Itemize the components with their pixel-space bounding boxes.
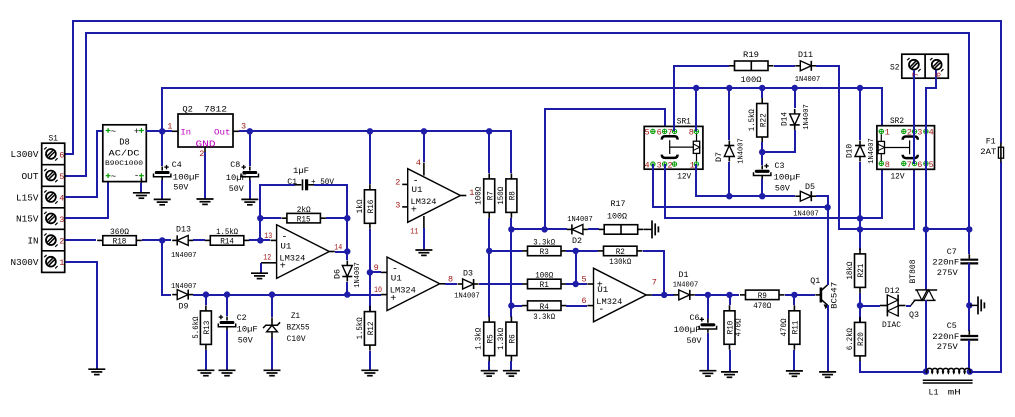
junction R4 line at R8: [508, 302, 514, 308]
zener Z1 BZX55 C10V: [271, 295, 273, 317]
resistor R4 3.3k: [511, 305, 522, 307]
wire jumper to OUT line: [926, 228, 969, 230]
svg-text:13: 13: [264, 231, 272, 241]
junction R15 right: [344, 215, 350, 221]
svg-text:1: 1: [885, 128, 890, 138]
junction R16 top on +12V: [367, 128, 373, 134]
svg-text:12: 12: [263, 253, 271, 263]
diode D10 1N4007: [859, 88, 861, 140]
wire SR1 pin1 to D5 line: [696, 164, 795, 196]
svg-text:6: 6: [59, 150, 64, 160]
svg-text:mH: mH: [948, 388, 961, 398]
svg-text:R20: R20: [856, 332, 866, 346]
svg-text:50V: 50V: [687, 336, 703, 346]
svg-text:7812: 7812: [204, 105, 227, 115]
svg-text:~: ~: [111, 172, 116, 182]
junction Q2 output node: [247, 128, 253, 134]
wire pin13 node up to R15/C1: [260, 185, 295, 240]
svg-text:-: -: [134, 171, 139, 181]
svg-text:1kΩ: 1kΩ: [356, 199, 365, 213]
svg-text:D11: D11: [798, 50, 813, 60]
svg-text:C6: C6: [690, 313, 700, 323]
svg-text:D1: D1: [679, 270, 689, 280]
junction pin13 node: [257, 237, 263, 243]
junction pin 9: [367, 269, 373, 275]
svg-text:2: 2: [907, 128, 912, 138]
diode D9 1N4007: [177, 290, 188, 300]
junction R11 top: [791, 292, 797, 298]
svg-text:4: 4: [929, 128, 934, 138]
svg-text:5: 5: [644, 128, 649, 138]
svg-text:3: 3: [59, 215, 64, 225]
svg-text:1.3kΩ: 1.3kΩ: [497, 328, 506, 350]
junction pin3 line at R21 column: [857, 215, 863, 221]
SR1 pin 3: [662, 162, 666, 166]
svg-text:LM324: LM324: [390, 286, 416, 296]
junction Q2 input node: [159, 128, 165, 134]
wire SR2 pin4 to pin5 through relay: [925, 131, 927, 164]
wire SR1 pin7 up to R19: [674, 66, 729, 131]
wire node B down through D6: [346, 218, 348, 260]
svg-text:470Ω: 470Ω: [735, 318, 744, 336]
SR2 pin 4: [924, 129, 928, 133]
svg-text:5: 5: [59, 172, 64, 182]
svg-text:U1: U1: [391, 274, 402, 284]
svg-text:BC547: BC547: [829, 282, 839, 309]
wire C4 branch: [161, 131, 163, 166]
svg-text:R12: R12: [366, 322, 376, 336]
capacitor C3 100uF 50V: [761, 152, 763, 165]
ground at R12: [361, 369, 378, 371]
resistor R15 2k: [287, 213, 321, 223]
diac D12: [880, 305, 887, 307]
wire pin 11 to ground: [423, 216, 425, 229]
ground at C8: [241, 198, 258, 200]
wire D8 plus to Q2 input node: [146, 130, 172, 132]
svg-text:1N4007: 1N4007: [354, 262, 362, 288]
wire triac to L1 left: [925, 300, 927, 372]
diode D6 1N4007: [342, 266, 352, 277]
wire D13 node down to D9: [162, 240, 171, 295]
svg-text:Q1: Q1: [810, 276, 820, 286]
svg-text:360Ω: 360Ω: [110, 228, 129, 237]
svg-text:7: 7: [911, 72, 921, 77]
svg-text:R13: R13: [202, 321, 212, 335]
pin marker D8 AC2: [106, 175, 111, 177]
svg-text:1: 1: [59, 258, 64, 268]
capacitor C8 10uF 50V: [244, 171, 256, 174]
SR2 pin 1: [879, 129, 883, 133]
svg-text:R14: R14: [220, 237, 234, 247]
svg-text:470Ω: 470Ω: [780, 318, 789, 336]
junction L1 right: [967, 368, 973, 374]
wire D5 to collector node: [816, 196, 828, 207]
wire SR2 pin5 down to triac: [925, 164, 927, 290]
junction pin5 node: [573, 281, 579, 287]
svg-text:R21: R21: [856, 264, 866, 278]
svg-text:6.2kΩ: 6.2kΩ: [846, 328, 855, 350]
wire S2 pin7 to SR2 pin3: [913, 70, 915, 131]
svg-text:3: 3: [917, 128, 922, 138]
SR1 pin 4: [651, 162, 655, 166]
capacitor C2 10uF 50V: [226, 295, 228, 316]
svg-text:D8: D8: [119, 138, 130, 148]
svg-text:10µF: 10µF: [226, 173, 247, 183]
svg-text:LM324: LM324: [411, 197, 437, 207]
wire S1-3 N15V to D8 AC input bottom: [65, 182, 108, 218]
SR1 contact bottom: [662, 155, 678, 158]
junction D7 top on rail: [726, 85, 732, 91]
resistor R22 1.5k: [761, 88, 763, 98]
junction D12 node: [857, 302, 863, 308]
voltage regulator Q2 7812: [178, 114, 233, 147]
wire SR2 pin3 to pin6 through relay: [913, 131, 915, 164]
svg-text:B90C1000: B90C1000: [105, 160, 143, 167]
svg-text:D9: D9: [179, 301, 189, 311]
earth at R17: [644, 228, 653, 230]
svg-text:1N4007: 1N4007: [171, 283, 197, 291]
SR1 pin 7: [672, 129, 676, 133]
SR1 coil: [693, 141, 699, 153]
svg-text:R1: R1: [540, 280, 549, 290]
svg-text:R15: R15: [297, 214, 311, 224]
terminal S1 screw pin 5: [46, 171, 56, 181]
terminal S1 screw pin 1: [46, 257, 56, 267]
svg-text:N300V: N300V: [11, 258, 40, 268]
SR2 pin 8: [879, 161, 883, 165]
resistor R16 1k: [369, 131, 371, 184]
svg-text:DIAC: DIAC: [882, 320, 901, 330]
svg-text:100Ω: 100Ω: [475, 187, 484, 205]
op-amp U1 LM324 pins 2 3 1: [408, 169, 461, 223]
svg-text:D5: D5: [805, 182, 815, 192]
svg-text:R5: R5: [485, 334, 495, 343]
resistor R5 1.3k: [484, 322, 495, 356]
junction R22 top on rail: [759, 85, 765, 91]
junction D10 top on rail: [857, 85, 863, 91]
wire R2 right to pin7 node: [643, 251, 664, 295]
wire D8 minus to ground: [140, 178, 142, 183]
ground at R13: [197, 369, 214, 371]
svg-text:100µF: 100µF: [674, 325, 701, 335]
svg-text:150Ω: 150Ω: [497, 187, 506, 205]
terminal S1 screw pin 3: [46, 214, 56, 224]
svg-text:IN: IN: [28, 236, 39, 246]
capacitor C6 100uF 50V: [707, 295, 709, 319]
wire D12 node to diac: [860, 305, 880, 307]
ground at C6: [699, 370, 716, 372]
ground at Z1: [264, 369, 281, 371]
capacitor C4 100uF 50V: [156, 171, 168, 174]
junction C6 top: [705, 292, 711, 298]
wire +12V from Q2 out to R8: [239, 131, 511, 173]
wire pin 8 output to D3: [440, 283, 446, 285]
capacitor C1 1uF 50V: [295, 184, 302, 186]
wire D3 to R1: [479, 283, 522, 285]
wire R16 bottom to pin9 and R12: [369, 229, 371, 311]
svg-text:5: 5: [929, 160, 934, 170]
svg-text:100µF: 100µF: [774, 173, 801, 183]
svg-text:7: 7: [652, 278, 657, 288]
ground at R5: [481, 370, 498, 372]
wire D14 bottom to R22 node: [762, 130, 795, 152]
svg-text:18kΩ: 18kΩ: [846, 261, 855, 279]
svg-text:11: 11: [410, 226, 418, 236]
diode D3 1N4007: [463, 279, 474, 289]
SR1 pin 5: [651, 129, 655, 133]
svg-text:6: 6: [581, 296, 586, 306]
terminal S2 screw pin 7: [909, 60, 919, 70]
svg-text:12V: 12V: [677, 172, 691, 181]
svg-text:1N4007: 1N4007: [868, 138, 876, 164]
wire R8 node to D2: [511, 228, 567, 230]
svg-text:D3: D3: [463, 268, 473, 278]
diode D7 1N4007: [728, 88, 730, 140]
resistor R6 1.3k: [506, 322, 517, 356]
ground at C4: [154, 198, 171, 200]
junction earth node: [966, 302, 972, 308]
SR2 pin 7: [902, 161, 906, 165]
svg-text:R19: R19: [743, 50, 759, 60]
wire pin 12 to ground: [261, 262, 277, 264]
SR2 pin 6: [912, 161, 916, 165]
svg-text:R18: R18: [113, 237, 127, 247]
svg-text:6: 6: [657, 128, 662, 138]
junction D7 bottom: [726, 193, 732, 199]
svg-text:1N4007: 1N4007: [803, 104, 811, 130]
SR2 pin 2: [902, 129, 906, 133]
svg-text:100Ω: 100Ω: [607, 212, 627, 222]
wire D2 to R17: [588, 228, 599, 230]
svg-text:R4: R4: [540, 302, 549, 312]
svg-text:LM324: LM324: [596, 297, 622, 307]
svg-text:10µF: 10µF: [237, 325, 258, 335]
wire C8 branch: [249, 131, 251, 166]
connector S1: [42, 143, 65, 272]
ground at Q2 GND: [197, 198, 214, 200]
svg-text:D7: D7: [715, 152, 724, 162]
svg-text:In: In: [181, 128, 192, 138]
svg-text:C1: C1: [287, 177, 297, 187]
SR1 pin 6: [662, 129, 666, 133]
svg-text:470Ω: 470Ω: [753, 302, 771, 311]
resistor R1 100: [528, 279, 562, 289]
wire D1 to R9: [695, 294, 739, 296]
svg-text:C8: C8: [230, 160, 240, 170]
svg-text:R7: R7: [485, 191, 495, 200]
wire R8 bottom down to R6: [510, 218, 512, 317]
svg-text:L15V: L15V: [16, 193, 39, 203]
bridge rectifier D8: [103, 125, 147, 182]
wire S1-4 L15V to D8 AC input top: [65, 131, 104, 197]
svg-text:1N4007: 1N4007: [171, 252, 197, 260]
resistor R21 18k: [855, 254, 866, 288]
svg-text:C5: C5: [947, 321, 957, 331]
resistor R13 5.6k: [205, 295, 207, 305]
svg-text:5.6kΩ: 5.6kΩ: [192, 316, 201, 338]
wire Q1 emitter to ground: [827, 305, 829, 372]
junction pin14 node: [344, 248, 350, 254]
op-amp U1 LM324 pins 9 10 8: [387, 257, 440, 311]
svg-text:1.5kΩ: 1.5kΩ: [356, 317, 365, 339]
resistor R2 130k: [576, 250, 598, 252]
svg-text:R22: R22: [758, 113, 768, 127]
wire +15V rail from Q2 input node to SR2 pin1: [162, 88, 882, 131]
ground at pin 11: [415, 249, 432, 251]
svg-text:Z1: Z1: [291, 312, 300, 321]
resistor R17 100: [604, 225, 638, 235]
svg-text:4: 4: [59, 193, 64, 203]
svg-text:1N4007: 1N4007: [738, 138, 746, 164]
wire pin 14 output to node B: [329, 251, 335, 253]
svg-text:275V: 275V: [937, 342, 959, 352]
svg-text:2kΩ: 2kΩ: [297, 206, 311, 215]
junction D5 node: [824, 204, 830, 210]
junction opamp pin4 power: [421, 128, 427, 134]
svg-text:R11: R11: [791, 321, 801, 335]
junction Z1 top: [269, 291, 275, 297]
svg-text:275V: 275V: [937, 268, 959, 278]
svg-text:10: 10: [374, 285, 382, 295]
wire L300V bus from S1-6 along top to fuse F1: [65, 21, 1001, 154]
wire node to pin5: [575, 251, 577, 284]
wire SR1 pin8 to rail: [695, 88, 697, 131]
SR2 pin 5: [924, 161, 928, 165]
svg-text:100Ω: 100Ω: [535, 272, 553, 281]
svg-text:2: 2: [667, 160, 672, 170]
svg-text:1.3kΩ: 1.3kΩ: [475, 328, 484, 350]
svg-text:9: 9: [374, 263, 379, 273]
junction R13 top: [203, 291, 209, 297]
wire Q1 collector up to D5 node: [827, 207, 829, 285]
resistor R19 100: [735, 61, 769, 71]
svg-text:1: 1: [690, 160, 695, 170]
junction D13 node: [159, 237, 165, 243]
resistor R14 1.5k: [210, 236, 244, 246]
svg-text:D13: D13: [176, 225, 191, 235]
wire pin 4 power: [423, 131, 425, 162]
ground at R10: [721, 371, 738, 373]
wire D9 to opamp3 +input: [193, 294, 381, 296]
svg-text:8: 8: [885, 160, 890, 170]
triac Q3 BT808: [911, 300, 915, 305]
resistor R11 470: [793, 295, 795, 305]
svg-text:R9: R9: [758, 291, 767, 301]
junction pin7 node: [661, 292, 667, 298]
wire R19 to D11: [774, 65, 795, 67]
svg-text:14: 14: [334, 242, 342, 252]
diode D14 1N4007: [794, 88, 796, 108]
svg-text:D10: D10: [846, 144, 855, 158]
svg-text:4: 4: [644, 160, 649, 170]
capacitor C7 220nF 275V: [968, 229, 970, 254]
svg-text:R16: R16: [366, 200, 376, 214]
junction R3 right / R2 left: [573, 248, 579, 254]
transistor Q1 BC547: [820, 288, 823, 303]
wire S1-1 N300V to ground: [65, 262, 97, 369]
svg-text:220nF: 220nF: [932, 258, 959, 268]
svg-text:C2: C2: [237, 313, 247, 323]
junction R15 left: [257, 215, 263, 221]
svg-text:~: ~: [111, 127, 116, 137]
svg-text:50V: 50V: [775, 184, 791, 194]
svg-text:+: +: [134, 127, 139, 137]
SR1 actuator line: [669, 140, 671, 154]
junction C2 top: [224, 291, 230, 297]
SR2 contact top: [903, 137, 918, 140]
ground at R11: [786, 370, 803, 372]
wire SR1 pin3 to SR2 pin8: [665, 164, 882, 218]
svg-text:SR1: SR1: [677, 118, 691, 127]
terminal S1 screw pin 6: [46, 149, 56, 159]
svg-text:4: 4: [416, 158, 421, 168]
inductor L1 1mH: [926, 368, 970, 373]
resistor R7 100: [488, 131, 490, 173]
svg-text:1µF: 1µF: [293, 166, 309, 176]
wire S2 pin6 to SR2 pin4: [926, 70, 936, 131]
pin 3 stub: [402, 206, 408, 208]
SR2 actuator line: [885, 147, 910, 149]
svg-text:1N4007: 1N4007: [454, 292, 480, 300]
svg-text:1N4007: 1N4007: [673, 282, 699, 290]
svg-text:220nF: 220nF: [932, 332, 959, 342]
svg-text:C4: C4: [172, 160, 182, 170]
svg-text:8: 8: [448, 274, 453, 284]
svg-text:2: 2: [395, 178, 400, 188]
svg-text:3: 3: [657, 160, 662, 170]
SR1 contact top: [662, 136, 678, 139]
svg-text:BT808: BT808: [908, 260, 918, 284]
wire D10 bottom to R21: [859, 162, 861, 250]
svg-text:D6: D6: [334, 269, 343, 279]
svg-text:2: 2: [59, 237, 64, 247]
svg-text:LM324: LM324: [279, 253, 305, 263]
svg-text:AC/DC: AC/DC: [109, 148, 140, 158]
wire R9 to Q1 base: [785, 294, 815, 296]
relay SR1 12V: [644, 126, 703, 169]
resistor R20 6.2k: [855, 322, 866, 356]
resistor R3 3.3k: [489, 250, 522, 252]
svg-text:7: 7: [667, 128, 672, 138]
svg-text:1: 1: [167, 122, 172, 132]
svg-text:R6: R6: [508, 334, 518, 343]
svg-text:SR2: SR2: [890, 117, 904, 126]
ground at Q1 emitter: [819, 371, 836, 373]
svg-text:BZX55: BZX55: [287, 324, 310, 333]
diode D11 1N4007: [800, 61, 811, 71]
SR2 coil: [878, 141, 884, 153]
pin marker D8 plus: [139, 130, 144, 132]
svg-text:R17: R17: [611, 199, 626, 209]
resistor R8 150: [506, 179, 517, 213]
junction C3 bottom: [759, 193, 765, 199]
wire R18 to D13 node: [142, 239, 171, 241]
svg-text:1N4007: 1N4007: [795, 76, 821, 84]
svg-text:OUT: OUT: [22, 172, 40, 182]
fuse F1 2AT: [1000, 143, 1002, 147]
svg-text:N15V: N15V: [16, 215, 39, 225]
svg-text:D12: D12: [885, 286, 900, 296]
junction R3 left: [486, 248, 492, 254]
SR2 pin 3: [912, 129, 916, 133]
wire R14 to opamp pin 13 node: [249, 239, 270, 241]
svg-text:R2: R2: [616, 247, 625, 257]
ground at pin 12: [251, 272, 268, 274]
wire SR1 pin4 to D5 node: [653, 164, 828, 207]
svg-text:100µF: 100µF: [173, 172, 200, 182]
svg-text:C3: C3: [775, 161, 785, 171]
svg-text:50V: 50V: [229, 184, 245, 194]
